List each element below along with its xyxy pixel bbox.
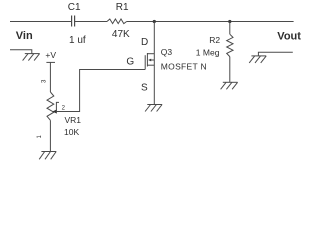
svg-text:Vout: Vout (277, 30, 301, 42)
capacitor C1 (72, 16, 75, 27)
junction dot drain node (153, 20, 156, 23)
ground (R2) (221, 82, 238, 89)
svg-text:R2: R2 (209, 35, 220, 45)
wire drain vertical / source vertical (153, 22, 155, 105)
supply +V bar (46, 61, 55, 63)
junction dot R2 node (228, 20, 231, 23)
transistor Q3 channel bar (146, 53, 148, 67)
wire Vout ground stub (258, 52, 292, 56)
svg-text:S: S (141, 83, 148, 94)
potentiometer VR1 body (47, 92, 54, 120)
svg-text:D: D (141, 37, 148, 48)
svg-text:C1: C1 (68, 2, 81, 13)
wire R2 bottom lead (229, 57, 231, 83)
resistor R2 (227, 34, 233, 56)
transistor Q3 gate bar (144, 55, 146, 69)
svg-text:+V: +V (45, 50, 56, 60)
svg-text:Q3: Q3 (161, 47, 173, 57)
VR1 wiper arrow (53, 109, 57, 113)
svg-text:Vin: Vin (16, 30, 33, 42)
svg-text:1 uf: 1 uf (69, 35, 86, 46)
transistor Q3 body arrow (150, 59, 154, 61)
svg-text:1: 1 (37, 135, 43, 139)
wire R2 top lead (229, 22, 231, 35)
wire wiper to gate (57, 70, 146, 112)
VR1 wiper pin stub (56, 102, 59, 111)
resistor R1 (107, 19, 127, 24)
svg-text:47K: 47K (112, 29, 130, 40)
svg-text:10K: 10K (64, 127, 79, 137)
svg-text:G: G (126, 57, 134, 68)
wire Vin ground stub (10, 50, 32, 54)
wire top rail left (Vin to C1) (10, 21, 72, 23)
svg-text:R1: R1 (116, 2, 129, 13)
svg-text:VR1: VR1 (65, 115, 82, 125)
wire +V to VR1 (49, 62, 51, 92)
svg-text:2: 2 (62, 106, 66, 112)
svg-text:1 Meg: 1 Meg (196, 47, 220, 57)
wire VR1 to ground (49, 120, 51, 151)
transistor Q3 drain stub (147, 53, 154, 55)
svg-text:3: 3 (42, 79, 48, 83)
ground (Vin side) (23, 54, 40, 61)
transistor Q3 source stub (147, 64, 154, 66)
wire top rail right (R1 to Vout) (127, 21, 294, 23)
wire C1 to R1 (75, 21, 107, 23)
svg-text:MOSFET N: MOSFET N (161, 61, 207, 71)
ground (VR1) (39, 152, 56, 160)
ground (Vout side) (249, 56, 266, 63)
ground (source) (145, 105, 162, 112)
